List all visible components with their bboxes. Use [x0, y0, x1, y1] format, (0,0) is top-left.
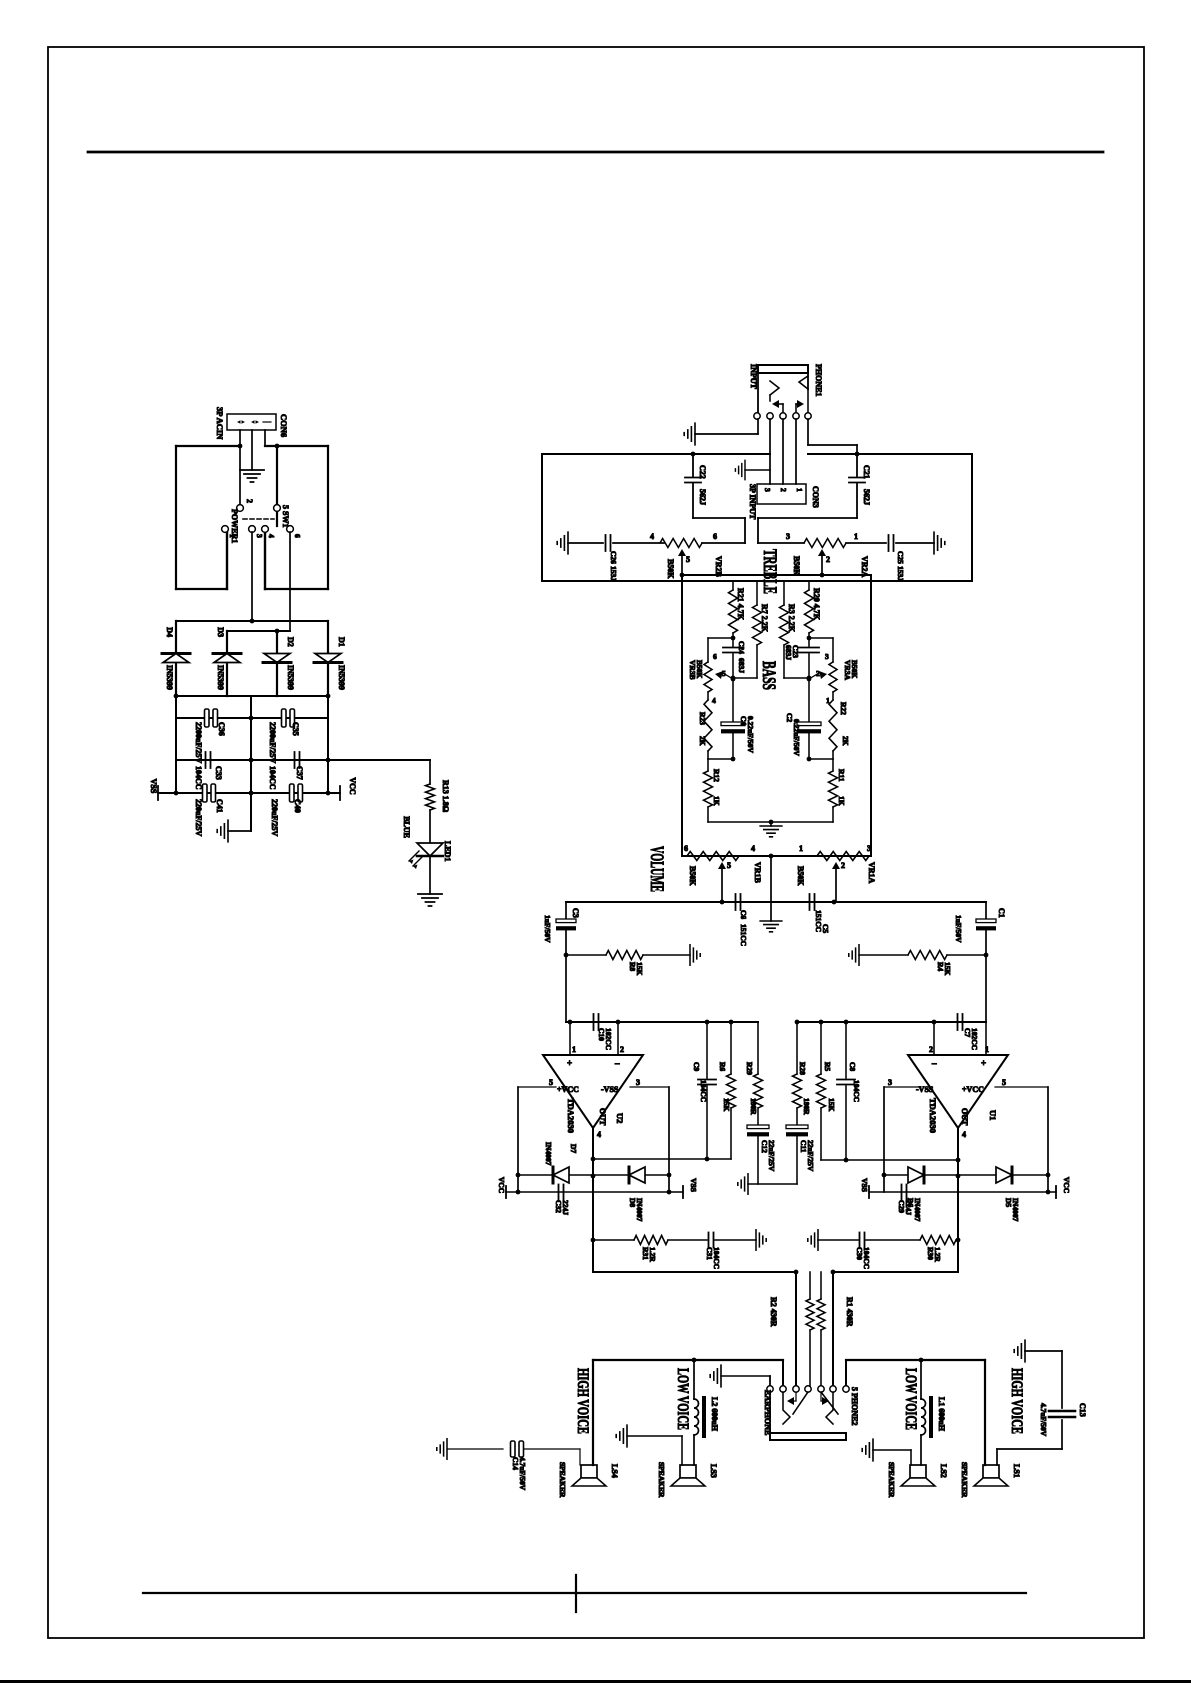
svg-text:LS2: LS2 — [939, 1464, 948, 1478]
svg-text:IN5399: IN5399 — [286, 665, 295, 690]
svg-text:1: 1 — [985, 1045, 989, 1054]
svg-text:3: 3 — [867, 844, 871, 853]
svg-text:+VCC: +VCC — [962, 1085, 984, 1094]
svg-text:BLUE: BLUE — [402, 816, 411, 838]
svg-text:6: 6 — [713, 652, 717, 661]
svg-text:CON6: CON6 — [279, 414, 289, 437]
svg-text:C36: C36 — [217, 722, 226, 736]
svg-text:VSS: VSS — [149, 779, 158, 794]
svg-text:2200uF/25V: 2200uF/25V — [194, 722, 203, 764]
svg-text:1: 1 — [854, 532, 858, 541]
svg-text:5 PHONE2: 5 PHONE2 — [850, 1387, 859, 1425]
svg-text:1: 1 — [228, 534, 237, 538]
svg-text:BASS: BASS — [758, 661, 779, 690]
svg-text:22uF/25V: 22uF/25V — [806, 1140, 815, 1172]
svg-text:D2: D2 — [286, 637, 295, 647]
svg-text:C22: C22 — [698, 465, 707, 479]
svg-text:B50K: B50K — [796, 866, 805, 886]
svg-text:–: – — [931, 1058, 937, 1068]
svg-text:LS3: LS3 — [709, 1464, 718, 1478]
svg-text:L2 600uH: L2 600uH — [710, 1397, 719, 1432]
svg-text:+VCC: +VCC — [557, 1085, 579, 1094]
svg-text:EARPHONE: EARPHONE — [763, 1390, 772, 1435]
svg-text:4.7uF/50V: 4.7uF/50V — [1039, 1403, 1048, 1437]
svg-text:LOW VOICE: LOW VOICE — [902, 1368, 919, 1430]
svg-text:IN5399: IN5399 — [337, 665, 346, 690]
svg-text:SPEAKER: SPEAKER — [657, 1462, 666, 1498]
svg-text:180R: 180R — [749, 1098, 758, 1115]
svg-text:224J: 224J — [561, 1200, 570, 1215]
svg-text:HIGH VOICE: HIGH VOICE — [1008, 1368, 1025, 1434]
svg-text:D1: D1 — [337, 637, 346, 647]
svg-text:1K: 1K — [712, 796, 721, 806]
svg-text:SPEAKER: SPEAKER — [558, 1462, 567, 1498]
svg-text:R1 430R: R1 430R — [845, 1297, 854, 1327]
svg-text:C33: C33 — [214, 766, 223, 780]
svg-text:D4: D4 — [165, 627, 174, 637]
svg-text:OUT: OUT — [960, 1108, 969, 1126]
svg-text:1uF/50V: 1uF/50V — [954, 915, 963, 943]
svg-text:B50K: B50K — [666, 559, 675, 579]
svg-text:2: 2 — [779, 488, 788, 492]
svg-text:1uF/50V: 1uF/50V — [543, 915, 552, 943]
svg-text:TDA2030: TDA2030 — [566, 1098, 576, 1133]
svg-text:1.2R: 1.2R — [933, 1247, 942, 1262]
svg-text:5: 5 — [686, 555, 690, 564]
svg-text:220uF/25V: 220uF/25V — [194, 799, 203, 837]
svg-text:180R: 180R — [802, 1098, 811, 1115]
svg-text:VSS: VSS — [860, 1178, 869, 1192]
svg-text:LS4: LS4 — [610, 1464, 619, 1478]
svg-text:6: 6 — [713, 532, 717, 541]
svg-text:15K: 15K — [827, 1098, 836, 1112]
svg-text:–: – — [614, 1058, 620, 1068]
svg-text:D3: D3 — [216, 627, 225, 637]
svg-text:0.22uF/50V: 0.22uF/50V — [792, 719, 801, 756]
svg-text:6: 6 — [684, 844, 688, 853]
svg-text:102CC: 102CC — [970, 1028, 979, 1050]
svg-text:C26: C26 — [609, 551, 618, 564]
svg-text:R6: R6 — [718, 1062, 727, 1071]
svg-text:POWER1: POWER1 — [230, 509, 239, 543]
svg-text:C23: C23 — [791, 645, 800, 658]
svg-text:5: 5 — [722, 669, 726, 678]
svg-text:4: 4 — [597, 1130, 601, 1139]
svg-text:TREBLE: TREBLE — [759, 549, 780, 594]
svg-text:3: 3 — [636, 1078, 640, 1087]
svg-text:15K: 15K — [943, 962, 952, 976]
svg-text:LS1: LS1 — [1012, 1464, 1021, 1478]
svg-text:U1: U1 — [988, 1110, 998, 1120]
svg-text:LED1: LED1 — [443, 841, 452, 861]
svg-text:104CC: 104CC — [862, 1247, 871, 1269]
svg-text:R2 430R: R2 430R — [769, 1297, 778, 1327]
svg-text:R28: R28 — [798, 1062, 807, 1075]
svg-text:3P ACIN: 3P ACIN — [215, 407, 225, 440]
svg-text:C5: C5 — [821, 924, 830, 933]
svg-text:104CC: 104CC — [194, 766, 203, 790]
svg-text:R23: R23 — [698, 712, 707, 725]
svg-text:C41: C41 — [215, 799, 224, 813]
svg-text:R12: R12 — [712, 769, 721, 782]
svg-text:CON3: CON3 — [811, 486, 820, 508]
svg-text:IN4007: IN4007 — [635, 1198, 644, 1222]
svg-text:2K: 2K — [841, 736, 850, 746]
svg-text:C8: C8 — [848, 1062, 857, 1071]
svg-text:C40: C40 — [293, 799, 302, 813]
svg-text:IN4007: IN4007 — [1011, 1198, 1020, 1222]
svg-text:3: 3 — [255, 534, 264, 538]
svg-text:3P INPUT: 3P INPUT — [748, 484, 757, 520]
svg-text:2: 2 — [929, 1045, 933, 1054]
svg-text:104CC: 104CC — [699, 1080, 708, 1102]
svg-text:5 SW1: 5 SW1 — [281, 505, 290, 527]
svg-text:R20 4.7K: R20 4.7K — [812, 588, 821, 621]
svg-text:C25: C25 — [896, 551, 905, 564]
svg-text:5: 5 — [549, 1078, 553, 1087]
svg-text:VCC: VCC — [1062, 1177, 1071, 1193]
svg-text:IN4007: IN4007 — [544, 1142, 553, 1166]
svg-text:C37: C37 — [295, 766, 304, 780]
svg-text:4: 4 — [267, 534, 276, 538]
svg-text:1.2R: 1.2R — [648, 1247, 657, 1262]
svg-text:PHONE1: PHONE1 — [814, 364, 823, 396]
svg-text:HIGH VOICE: HIGH VOICE — [574, 1368, 591, 1434]
svg-text:0.22uF/50V: 0.22uF/50V — [746, 716, 755, 753]
svg-text:3: 3 — [888, 1078, 892, 1087]
svg-text:4: 4 — [751, 844, 755, 853]
svg-text:B50K: B50K — [850, 660, 859, 679]
svg-text:TDA2030: TDA2030 — [928, 1098, 938, 1133]
svg-text:C24: C24 — [737, 641, 746, 654]
svg-text:4: 4 — [712, 696, 716, 705]
svg-text:1: 1 — [799, 844, 803, 853]
svg-text:C6: C6 — [739, 910, 748, 919]
svg-text:6: 6 — [293, 534, 302, 538]
svg-text:104CC: 104CC — [712, 1247, 721, 1269]
svg-text:C3: C3 — [571, 908, 580, 918]
svg-text:VCC: VCC — [497, 1177, 506, 1193]
svg-text:R22: R22 — [839, 702, 848, 715]
svg-text:2: 2 — [245, 499, 254, 503]
svg-text:R3 2.2K: R3 2.2K — [787, 604, 796, 633]
svg-text:C1: C1 — [997, 908, 1006, 918]
svg-text:1K: 1K — [837, 796, 846, 806]
svg-text:R13 1.8Ω: R13 1.8Ω — [441, 780, 450, 813]
svg-text:IN5399: IN5399 — [165, 665, 174, 690]
svg-text:+: + — [567, 1058, 572, 1068]
svg-text:220uF/25V: 220uF/25V — [270, 799, 279, 837]
svg-text:3: 3 — [825, 652, 829, 661]
svg-text:153J: 153J — [609, 566, 618, 581]
svg-text:2: 2 — [620, 1045, 624, 1054]
svg-text:R7 2.2K: R7 2.2K — [760, 604, 769, 633]
svg-text:5: 5 — [1002, 1078, 1006, 1087]
svg-text:683J: 683J — [737, 658, 746, 673]
svg-text:153J: 153J — [896, 566, 905, 581]
svg-text:151CC: 151CC — [739, 924, 748, 946]
svg-text:SPEAKER: SPEAKER — [960, 1462, 969, 1498]
svg-text:R29: R29 — [745, 1062, 754, 1075]
svg-text:2K: 2K — [698, 736, 707, 746]
svg-text:22uF/25V: 22uF/25V — [767, 1140, 776, 1172]
svg-text:2200uF/25V: 2200uF/25V — [268, 722, 277, 764]
svg-text:C21: C21 — [862, 465, 871, 479]
svg-text:U2: U2 — [615, 1113, 625, 1123]
svg-text:2: 2 — [841, 861, 845, 870]
svg-text:VR1A: VR1A — [867, 862, 876, 884]
svg-text:-VSS: -VSS — [601, 1085, 619, 1094]
svg-text:C35: C35 — [291, 722, 300, 736]
svg-text:1: 1 — [795, 488, 804, 492]
svg-text:4: 4 — [650, 532, 654, 541]
svg-text:L1 600uH: L1 600uH — [937, 1397, 946, 1432]
svg-text:VOLUME: VOLUME — [646, 846, 667, 892]
svg-text:D7: D7 — [569, 1144, 578, 1153]
svg-text:INPUT: INPUT — [749, 364, 758, 390]
svg-text:102CC: 102CC — [604, 1028, 613, 1050]
svg-text:OUT: OUT — [598, 1108, 607, 1126]
svg-text:5: 5 — [727, 861, 731, 870]
svg-text:+: + — [981, 1058, 986, 1068]
svg-text:B50K: B50K — [688, 866, 697, 886]
svg-text:B50K: B50K — [695, 660, 704, 679]
svg-text:224J: 224J — [904, 1200, 913, 1215]
svg-text:VR1B: VR1B — [753, 862, 762, 884]
svg-text:R11: R11 — [837, 769, 846, 782]
svg-text:-VSS: -VSS — [916, 1085, 934, 1094]
svg-text:C9: C9 — [692, 1062, 701, 1071]
svg-text:4.7uF/50V: 4.7uF/50V — [518, 1457, 527, 1491]
svg-text:R21 4.7K: R21 4.7K — [736, 588, 745, 621]
svg-text:C13: C13 — [1078, 1403, 1087, 1417]
svg-text:R5: R5 — [823, 1062, 832, 1071]
svg-text:15K: 15K — [722, 1098, 731, 1112]
svg-text:104CC: 104CC — [268, 766, 277, 790]
svg-text:B50K: B50K — [792, 556, 801, 576]
svg-text:15K: 15K — [635, 962, 644, 976]
svg-text:2: 2 — [816, 669, 820, 678]
svg-text:SPEAKER: SPEAKER — [887, 1462, 896, 1498]
svg-text:VCC: VCC — [348, 777, 357, 795]
svg-text:VSS: VSS — [689, 1178, 698, 1192]
svg-text:LOW VOICE: LOW VOICE — [674, 1368, 691, 1430]
svg-text:104CC: 104CC — [852, 1080, 861, 1102]
svg-text:4: 4 — [962, 1130, 966, 1139]
svg-text:2: 2 — [826, 555, 830, 564]
svg-text:IN4007: IN4007 — [913, 1198, 922, 1222]
svg-text:IN5399: IN5399 — [216, 665, 225, 690]
svg-text:3: 3 — [786, 532, 790, 541]
svg-text:3: 3 — [763, 488, 772, 492]
svg-text:1: 1 — [572, 1045, 576, 1054]
svg-text:562J: 562J — [698, 489, 707, 505]
svg-text:562J: 562J — [862, 489, 871, 505]
